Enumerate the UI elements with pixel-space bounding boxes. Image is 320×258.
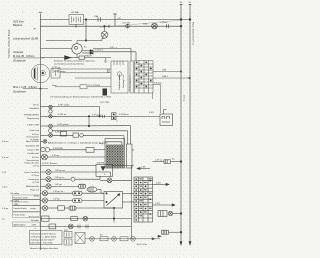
lamp E7 twin parking left [41, 147, 45, 151]
relay K2 small box [64, 232, 72, 238]
svg-text:0,75/1,5: 0,75/1,5 [95, 49, 104, 51]
brake switch S6 [58, 206, 65, 210]
switch contact stipple fill [106, 145, 124, 168]
svg-text:Zündkerze: Zündkerze [12, 89, 26, 93]
wire fuse output bend down [153, 84, 161, 86]
svg-text:Stellung 0-1-2: Stellung 0-1-2 [122, 74, 125, 88]
relay K3 small box [64, 239, 72, 245]
starter M1 wire [41, 57, 65, 59]
svg-text:0,75² gn/sw: 0,75² gn/sw [57, 123, 69, 126]
wire J1 bottom stub [110, 172, 112, 176]
svg-text:Rücklicht 21W: Rücklicht 21W [14, 196, 29, 199]
svg-text:4,0/1: 4,0/1 [149, 112, 155, 114]
lamp E9 tail [42, 154, 48, 160]
wire battery tap down [85, 20, 87, 41]
lamp E6 headlight low [49, 133, 53, 137]
svg-text:Blinkkontrolle: Blinkkontrolle [26, 185, 40, 188]
connector plug X1 on battery row [97, 18, 99, 22]
relay diagonal actuator [107, 194, 120, 206]
svg-text:12V 8Ah: 12V 8Ah [71, 11, 80, 14]
wire regulator link [93, 48, 131, 50]
wire arrow bottom chain [152, 238, 155, 240]
wire bus 31 bottom arrow [189, 242, 191, 246]
terminal block dark at switch left [103, 89, 108, 96]
lamp E2 tail [49, 115, 52, 118]
svg-text:Kabelquerschnitt 16mm²: Kabelquerschnitt 16mm² [31, 239, 55, 242]
label box 1 [13, 195, 41, 199]
svg-text:15A: 15A [94, 15, 98, 18]
connector small [71, 217, 78, 221]
svg-text:0,75² sw/ws: 0,75² sw/ws [54, 70, 66, 73]
svg-text:-3,5/2 sCnc: -3,5/2 sCnc [136, 244, 148, 246]
wire ignition coil secondary row [60, 72, 111, 74]
wire row P2 to flasher [41, 115, 49, 117]
wire switch box bottom drop [152, 93, 154, 99]
svg-text:4,0 sw: 4,0 sw [2, 157, 9, 159]
switch housing second column [127, 144, 133, 168]
node dot lamp top [104, 25, 106, 27]
wire P1 drop to P2 [99, 107, 101, 117]
svg-text:Schaltplan elektrische Anlage: Schaltplan elektrische Anlage [8, 29, 11, 58]
svg-text:Standlicht: Standlicht [29, 107, 39, 110]
lamp E1 twin lower [49, 110, 52, 113]
svg-text:30/3 Kue: 30/3 Kue [13, 19, 24, 23]
wire row P1 [41, 106, 49, 108]
starter M1 solenoid triangle [65, 56, 72, 60]
fuse F1 tick on charge row [108, 25, 110, 28]
node terminal 30 bus right vertical [180, 4, 182, 242]
switch S8 box [49, 224, 56, 229]
wire lamp drop to charge lamp [101, 38, 103, 40]
svg-text:PÖR43x/M29a/: PÖR43x/M29a/ [24, 113, 39, 116]
ground symbol small left of switch [105, 58, 107, 61]
fuse box internal column dividers [138, 61, 140, 94]
node dot spark plug wire at bus [40, 88, 42, 90]
lamp H3 charge warning [101, 31, 108, 38]
flasher relay K2 box [104, 191, 123, 208]
label box 2 [13, 200, 41, 206]
wire fuse output to bus 31 [153, 77, 190, 79]
wire lamp top to charge row [104, 26, 106, 31]
svg-text:Oval rund: Oval rund [30, 129, 40, 132]
wire row L5 [52, 130, 127, 132]
wire bus 30 bottom arrow [180, 242, 182, 246]
wire row tail feed [41, 225, 132, 227]
svg-text:1/8 ws: 1/8 ws [33, 105, 40, 107]
ignition switch rotor circle [117, 72, 121, 76]
label underline starter spec [13, 57, 45, 59]
svg-text:0,75² sw: 0,75² sw [52, 66, 61, 69]
wire row brake feed [41, 218, 132, 220]
dimmer switch S2 [73, 133, 79, 137]
svg-text:Parkleuchte: Parkleuchte [27, 152, 39, 155]
svg-text:1,5² gn ws: 1,5² gn ws [92, 113, 103, 116]
ignition switch S3 stippled housing [105, 139, 125, 169]
wire J1 out right [113, 165, 135, 167]
wire grid right stub with arrow [153, 183, 167, 185]
switch box on parking row [86, 148, 94, 153]
terminal grid block X7 [134, 177, 153, 222]
svg-text:1,5² ro: 1,5² ro [33, 164, 40, 167]
svg-text:0,75 gn: 0,75 gn [32, 175, 40, 177]
svg-text:M14 x 1,25 0,8mm: M14 x 1,25 0,8mm [13, 85, 38, 89]
svg-text:Bremslicht: Bremslicht [29, 216, 40, 219]
fuse box F2 housing [135, 61, 154, 94]
svg-text:Fernlicht rechts: Fernlicht rechts [14, 201, 30, 204]
svg-text:ws/gn: ws/gn [30, 208, 36, 210]
wire relay out upper [123, 192, 135, 194]
svg-text:4,0/8 rt 25W: 4,0/8 rt 25W [27, 124, 40, 127]
junction box triangle [101, 167, 105, 171]
svg-text:4,0² ws: 4,0² ws [52, 154, 60, 157]
note box bottom left [30, 231, 63, 245]
svg-text:Schalter: Schalter [31, 219, 39, 222]
wire flasher hook [163, 110, 165, 115]
wire arrow into grid [140, 168, 150, 170]
connector strip label box [130, 61, 133, 93]
connector X8 crossed box [75, 233, 85, 244]
lamp E19 pilot near relay [107, 178, 112, 183]
wire row L4 to nest outer [41, 125, 49, 127]
svg-text:0,75² sw: 0,75² sw [58, 113, 67, 116]
svg-text:Parkl. Kontr.: Parkl. Kontr. [14, 213, 26, 216]
lamp E11 pilot 2 [46, 177, 51, 182]
svg-text:P 21W Bremsl.: P 21W Bremsl. [42, 162, 58, 165]
connector X8 [164, 160, 171, 164]
connector X6 hatched [69, 206, 76, 210]
svg-text:M 4x1,35 0,8mm: M 4x1,35 0,8mm [13, 54, 35, 58]
svg-text:Hupe 1,5: Hupe 1,5 [30, 189, 40, 191]
svg-text:Lichtmaschine (2L4B: Lichtmaschine (2L4B [13, 37, 38, 41]
terminal tick 30 top [180, 4, 182, 6]
connector ticks on P2 [102, 115, 104, 118]
svg-text:0,75(4)sw: 0,75(4)sw [119, 114, 129, 116]
svg-text:E/A 1R: E/A 1R [85, 54, 92, 57]
terminal pins dots [135, 178, 137, 180]
connector X5 round [73, 199, 83, 203]
battery minus stub [75, 25, 77, 28]
svg-text:15A-1: 15A-1 [162, 75, 169, 78]
diode V1 [90, 50, 93, 52]
connector ticks before bus [166, 25, 168, 28]
svg-text:4,0² ws: 4,0² ws [32, 133, 40, 136]
connector ticks row 226 [77, 225, 79, 229]
terminal tick 31 top [189, 4, 191, 6]
lamp E16 small [83, 216, 88, 221]
svg-text:DIN 72551 / TGL 9744: DIN 72551 / TGL 9744 [31, 243, 54, 245]
svg-text:15A: 15A [162, 69, 166, 72]
wire alternator label row [46, 40, 72, 42]
svg-text:Polarität beachten! Masse: Polarität beachten! Masse [31, 233, 57, 236]
wire fuse output to bus 30 [153, 71, 181, 73]
diode V2 [90, 52, 93, 54]
wire branch down x89 [88, 116, 90, 126]
wire bus to junction row [41, 165, 97, 167]
tick marks connector column [107, 69, 109, 73]
node dot branch [88, 116, 90, 118]
connector X3 hatched [79, 184, 86, 188]
svg-text:1,5 br: 1,5 br [2, 185, 8, 188]
lamp E6b indicator on dense row [43, 139, 47, 143]
lamp E5 row upper [49, 129, 53, 133]
svg-text:1,5² gn sw: 1,5² gn sw [53, 190, 64, 193]
switch knob circle [80, 134, 84, 138]
svg-text:Begrenzung: Begrenzung [27, 117, 40, 120]
breaker points S1 [80, 85, 87, 89]
svg-text:Anlasser: Anlasser [13, 50, 24, 54]
svg-text:1,5/1: 1,5/1 [155, 203, 161, 205]
wire battery positive row [41, 19, 70, 21]
switch S5 small [71, 177, 75, 181]
node dot charge row at bus 30 [180, 25, 182, 27]
svg-text:U4³ gn sw: U4³ gn sw [55, 169, 65, 172]
wire relay bottom drop [113, 208, 115, 223]
svg-text:0,5/1: 0,5/1 [156, 183, 162, 185]
resistor R2 bottom [100, 237, 108, 241]
svg-text:Abblendlicht: Abblendlicht [14, 224, 26, 227]
battery G1 [69, 15, 84, 25]
lamp E1 parking front twin upper [49, 105, 52, 108]
svg-text:bl/sw: bl/sw [34, 196, 39, 198]
switch S7 box [42, 216, 50, 221]
svg-text:P 25/25W: P 25/25W [53, 148, 64, 150]
wire coil to breaker points [55, 86, 80, 88]
svg-text:Fernlicht links: Fernlicht links [14, 207, 28, 210]
wire lower connector to bus 30 [153, 204, 173, 206]
svg-text:12-2 P31/46: 12-2 P31/46 [88, 85, 101, 87]
lamp E15 turn rear [42, 205, 47, 210]
svg-text:12V: 12V [64, 230, 68, 232]
wire breaker row [75, 77, 111, 79]
svg-text:U4¹ gn: U4¹ gn [55, 183, 62, 186]
alternator bottom stub [76, 54, 78, 58]
svg-text:12V 21W: 12V 21W [100, 102, 110, 104]
label box 4 [13, 212, 41, 217]
svg-text:1,5² sw: 1,5² sw [155, 159, 162, 162]
lamp E14 bottom [90, 236, 95, 241]
svg-text:Einebene mit Anlasserfreilauf: Einebene mit Anlasserfreilauf u. Dynasta… [54, 60, 95, 63]
ballast resistor R1 [79, 56, 85, 59]
lamp E4 headlight row [49, 124, 53, 128]
svg-text:U4² gn st: U4² gn st [55, 176, 64, 179]
terminal cell marks [140, 178, 143, 179]
svg-text:0,75² sw/gn: 0,75² sw/gn [58, 103, 70, 106]
connector X9 bottom right [162, 230, 169, 234]
wire charge control row [41, 25, 182, 27]
wire rectified output to fuse box [93, 51, 136, 53]
lamp E10 high beam pilot [46, 169, 51, 174]
label box 3 [13, 206, 41, 212]
wire ignition feed drop x115 [114, 14, 116, 26]
svg-text:mit Vielfachstellung als Einba: mit Vielfachstellung als Einbauanleitung… [50, 95, 112, 98]
svg-text:U4 sw/bn: U4 sw/bn [10, 193, 20, 195]
svg-text:Kontr. Fernlicht: Kontr. Fernlicht [24, 171, 39, 174]
svg-text:Zündlichtschalter: Zündlichtschalter [118, 73, 121, 90]
wire bottom chain [85, 238, 160, 240]
connector X4 round [73, 191, 83, 195]
svg-text:0,5 sw: 0,5 sw [183, 95, 185, 102]
svg-text:Sicherungsdose: Sicherungsdose [129, 75, 132, 91]
svg-text:Batterie: Batterie [13, 23, 23, 27]
svg-text:Lampe 21W: Lampe 21W [27, 150, 40, 152]
svg-text:an Rahmen u. Motor blank: an Rahmen u. Motor blank [31, 236, 58, 239]
wire dense row bend [105, 141, 122, 143]
connector X2 on P2 [112, 113, 117, 120]
svg-text:4,0² ws: 4,0² ws [32, 156, 40, 159]
wire grid feed to bus 30 upper [153, 161, 165, 163]
junction box J1 [96, 164, 113, 176]
wire switch to grid [132, 149, 134, 151]
wire faint diagonal annotation [100, 20, 180, 27]
lamp E18 rear cluster [168, 211, 172, 215]
rear light unit box [158, 211, 167, 217]
lamp E14 turn front right [42, 198, 47, 203]
svg-text:0,75 bl: 0,75 bl [32, 182, 39, 184]
svg-text:Zündspule: Zündspule [12, 58, 26, 62]
magneto winding bars [34, 68, 36, 80]
label box 5 [13, 222, 41, 227]
breaker contact box [51, 69, 60, 79]
starter output wire [71, 57, 79, 59]
svg-text:30/1Rd: 30/1Rd [97, 163, 105, 165]
svg-text:14V ~+: 14V ~+ [110, 47, 118, 49]
alternator G2 circle [72, 44, 82, 54]
alternator B+ output wires [82, 50, 90, 52]
lamp holder box row134 [61, 132, 67, 137]
node dot P1 join [99, 116, 101, 118]
lamp E15 bottom [112, 236, 117, 241]
lamp E16 bottom [131, 236, 136, 241]
wire relay out lower [123, 201, 135, 203]
magneto inner rotor circle [40, 70, 45, 75]
svg-text:1,5 gn: 1,5 gn [2, 208, 9, 210]
lamp H2 indicator with cross [152, 23, 158, 29]
svg-text:12V 2W: 12V 2W [122, 23, 131, 25]
alternator D+ lead up [76, 41, 78, 44]
svg-text:1,5² gn: 1,5² gn [53, 197, 61, 200]
horn B1 [87, 187, 97, 192]
svg-text:Bilux 45/40W: Bilux 45/40W [26, 141, 40, 143]
lamp E17 small [68, 224, 73, 229]
lamp E12 pilot 3 [46, 184, 51, 189]
spark plug wire row [23, 88, 48, 90]
node dot battery tap joins [85, 40, 87, 42]
tick bus top [39, 11, 42, 13]
wire vertical x131 [131, 166, 133, 239]
wire ignition coil primary feed [60, 68, 111, 70]
svg-text:Masse Kabel 16mm² sw: Masse Kabel 16mm² sw [192, 22, 195, 46]
svg-text:1,5² ge: 1,5² ge [55, 131, 63, 134]
fuse box internal rows [135, 63, 154, 65]
node main supply bus left vertical [40, 14, 42, 251]
ignition switch box A1 tall [111, 61, 128, 93]
wire alternator feed from bus [41, 48, 72, 50]
svg-text:1,5²mm: 1,5²mm [160, 21, 168, 24]
fuse dots in grid [136, 62, 137, 63]
lamp E13 turn front left [42, 191, 47, 196]
svg-text:Schlussleuchte: Schlussleuchte [24, 161, 39, 164]
flasher relay K1 [160, 114, 173, 126]
svg-text:6mm: 6mm [52, 85, 57, 87]
resistor R3 bottom [120, 237, 128, 241]
node dot battery row at bus 30 [180, 19, 182, 21]
node dot branch L4 [88, 125, 90, 127]
lamp E8 twin parking right [45, 148, 49, 152]
node terminal 31 bus far right vertical [189, 4, 191, 242]
lamp H1 charge indicator small [126, 24, 130, 28]
svg-text:Leerlauf gn: Leerlauf gn [28, 178, 40, 181]
svg-text:als Sonderausstattung lieferba: als Sonderausstattung lieferbar [54, 62, 85, 65]
svg-text:0,5 grau: 0,5 grau [154, 82, 163, 85]
magneto M big circle [31, 64, 50, 83]
wire battery to terminal 30 bus [84, 19, 191, 21]
svg-text:Standlicht 4W: Standlicht 4W [26, 144, 40, 147]
svg-text:Hinweis Schaltplan beachten: Hinweis Schaltplan beachten [30, 247, 59, 250]
svg-text:4,0 ws: 4,0 ws [2, 141, 9, 143]
